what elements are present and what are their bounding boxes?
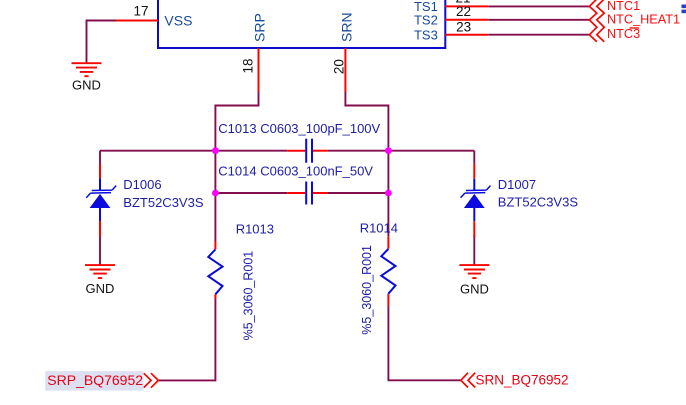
- svg-text:22: 22: [456, 4, 471, 19]
- svg-text:SRN: SRN: [339, 12, 355, 42]
- svg-text:R1013: R1013: [236, 221, 274, 236]
- svg-text:D1006: D1006: [123, 177, 161, 192]
- svg-text:17: 17: [133, 4, 148, 19]
- svg-text:BZT52C3V3S: BZT52C3V3S: [123, 195, 204, 210]
- svg-text:C1013 C0603_100pF_100V: C1013 C0603_100pF_100V: [218, 121, 380, 136]
- svg-text:TS3: TS3: [414, 27, 438, 42]
- svg-text:NTC1: NTC1: [607, 0, 640, 13]
- svg-text:18: 18: [241, 58, 256, 73]
- svg-text:SRN_BQ76952: SRN_BQ76952: [476, 373, 569, 388]
- svg-text:D1007: D1007: [498, 177, 536, 192]
- svg-text:SRP_BQ76952: SRP_BQ76952: [47, 372, 143, 388]
- svg-text:C1014 C0603_100nF_50V: C1014 C0603_100nF_50V: [218, 163, 373, 178]
- svg-text:NTC3: NTC3: [607, 27, 640, 41]
- svg-text:GND: GND: [460, 281, 489, 296]
- svg-text:TS2: TS2: [414, 13, 438, 28]
- svg-text:%5_3060_R001: %5_3060_R001: [360, 245, 374, 335]
- svg-text:VSS: VSS: [164, 13, 192, 29]
- svg-text:NTC_HEAT1: NTC_HEAT1: [607, 12, 680, 26]
- svg-text:SRP: SRP: [252, 13, 268, 42]
- svg-text:%5_3060_R001: %5_3060_R001: [241, 251, 255, 341]
- svg-text:R1014: R1014: [360, 221, 398, 236]
- svg-text:GND: GND: [72, 78, 101, 93]
- svg-text:GND: GND: [86, 281, 115, 296]
- svg-text:23: 23: [456, 19, 471, 34]
- svg-text:BZT52C3V3S: BZT52C3V3S: [498, 195, 579, 210]
- svg-text:20: 20: [332, 59, 347, 74]
